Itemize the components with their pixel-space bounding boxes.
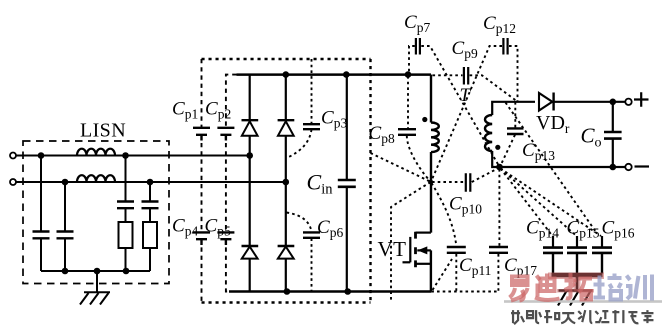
output ground slashes bbox=[558, 291, 591, 306]
label - bbox=[635, 165, 650, 167]
capacitor Cp3 dashed lead bbox=[287, 59, 312, 158]
capacitor Cp2/Cp5 parasitic line bbox=[226, 75, 237, 292]
wire VDr to output bbox=[552, 101, 626, 103]
dashed diag at source corner bbox=[433, 259, 453, 290]
svg-text:Cp4: Cp4 bbox=[172, 216, 198, 239]
chassis dotted box right edge bbox=[369, 59, 371, 303]
svg-text:T: T bbox=[460, 85, 472, 106]
ground bus bar bbox=[552, 273, 603, 278]
svg-text:Cp2: Cp2 bbox=[205, 99, 231, 122]
node drain convergence bbox=[428, 180, 433, 185]
capacitor Cin wire bbox=[346, 75, 348, 292]
capacitor Cp7 plates bbox=[416, 38, 420, 55]
node out+ bbox=[610, 99, 617, 106]
capacitor Cp1 plates bbox=[193, 128, 210, 141]
svg-text:Cp13: Cp13 bbox=[522, 140, 555, 163]
capacitor Cp13 leads bbox=[500, 102, 515, 166]
node toprail-Cp7/Cp8 bbox=[405, 71, 412, 78]
LISN cap branch A wire bbox=[40, 156, 42, 272]
bridge branch 2 wire bbox=[285, 75, 287, 292]
wire line2 bbox=[16, 181, 286, 183]
diode D4 bbox=[278, 245, 295, 247]
capacitor Cp9 leads bbox=[433, 75, 517, 100]
capacitor Cp13 plates bbox=[507, 128, 524, 134]
capacitor Cp4 plates bbox=[193, 232, 210, 245]
svg-text:Co: Co bbox=[581, 124, 602, 151]
capacitor B plates bbox=[57, 232, 74, 239]
chassis dotted box top edge bbox=[202, 58, 371, 60]
big char 2 (di) bbox=[535, 274, 560, 301]
node rail-B bbox=[62, 268, 69, 275]
svg-text:Cp9: Cp9 bbox=[452, 38, 478, 61]
bottom DC rail bbox=[229, 290, 431, 293]
svg-text:Cp1: Cp1 bbox=[172, 99, 198, 122]
svg-text:VDr: VDr bbox=[536, 112, 570, 136]
node branch1-wire1 bbox=[246, 152, 253, 159]
capacitor Cp16 bbox=[601, 236, 603, 247]
svg-text:VT: VT bbox=[378, 237, 407, 261]
capacitor Cp8 leads bbox=[407, 76, 430, 181]
node rail-gnd bbox=[94, 268, 101, 275]
svg-text:Cp11: Cp11 bbox=[459, 255, 491, 278]
node wire2-branchB bbox=[62, 179, 69, 186]
inductor L2 bbox=[77, 175, 115, 182]
red tint on ground bus bbox=[548, 273, 604, 280]
svg-text:Cp10: Cp10 bbox=[449, 194, 482, 217]
svg-text:Cp5: Cp5 bbox=[205, 216, 231, 239]
big char 4 (pei) bbox=[594, 274, 622, 300]
capacitor Cp10 plates bbox=[466, 173, 471, 191]
input terminal bottom bbox=[10, 179, 16, 185]
node wire2-branchD bbox=[147, 179, 154, 186]
resistor D bbox=[143, 222, 157, 248]
svg-text:Cin: Cin bbox=[307, 170, 334, 198]
capacitor Cp11 leads bbox=[432, 183, 457, 291]
resistor C bbox=[119, 222, 133, 248]
node out- bbox=[610, 164, 617, 171]
LISN RC branch C wire bbox=[125, 156, 127, 272]
svg-text:Cp15: Cp15 bbox=[567, 218, 600, 241]
wire secondary top bbox=[492, 102, 535, 115]
top DC rail bbox=[237, 73, 432, 76]
capacitor C plates bbox=[117, 202, 134, 209]
capacitor Cp11 plates bbox=[447, 247, 466, 253]
diode VDr bbox=[539, 93, 552, 111]
transistor VT bbox=[403, 232, 431, 292]
capacitor Cp7 leads bbox=[409, 46, 499, 167]
capacitor Co plates bbox=[604, 132, 622, 139]
diode D3 bbox=[242, 245, 259, 247]
wire out- stub bbox=[613, 166, 626, 168]
capacitor Cp14 bbox=[552, 236, 554, 247]
wire primary to VT drain bbox=[430, 152, 432, 233]
watermark bbox=[504, 273, 662, 325]
big char 5 (xun) bbox=[626, 275, 652, 301]
capacitor Cp12 plates bbox=[503, 38, 507, 55]
dashed: box edge to drain node bbox=[371, 153, 431, 182]
wire rail corner to primary bbox=[430, 75, 432, 123]
ground stem bbox=[576, 277, 579, 291]
terminal + bbox=[625, 99, 631, 105]
diode D1 bbox=[242, 119, 259, 121]
node secondary bottom bbox=[496, 164, 503, 171]
svg-text:LISN: LISN bbox=[80, 120, 126, 142]
terminal - bbox=[625, 164, 631, 170]
capacitor Cp12 leads bbox=[431, 46, 517, 181]
bridge branch 1 wire bbox=[249, 75, 251, 292]
capacitor Cp1/Cp4 parasitic line (box left edge) bbox=[201, 59, 203, 303]
capacitor Cp3 plates bbox=[303, 124, 320, 129]
node Cin-botrail bbox=[344, 288, 351, 295]
node branch2-botrail bbox=[284, 288, 291, 295]
svg-text:Cp7: Cp7 bbox=[404, 12, 430, 35]
underline bar bbox=[504, 300, 662, 303]
capacitor Cp6 dashed lead bbox=[287, 213, 312, 292]
capacitor Cp6 plates bbox=[303, 232, 320, 237]
wire line1 bbox=[16, 155, 250, 157]
transformer T primary winding bbox=[431, 123, 439, 153]
capacitor Cp17 leads bbox=[498, 169, 499, 292]
wire secondary bottom bbox=[492, 151, 613, 167]
capacitor Cp5 plates bbox=[217, 232, 234, 245]
dashed fan to ground caps bbox=[501, 169, 553, 237]
capacitor Cp8 plates bbox=[398, 129, 416, 135]
capacitor Cp10 leads bbox=[432, 168, 499, 182]
capacitor Cp9 plates bbox=[464, 67, 468, 85]
secondary polarity dot bbox=[495, 145, 500, 150]
node wire1-branchC bbox=[122, 152, 129, 159]
LISN RC branch D wire bbox=[149, 182, 151, 271]
capacitor Co wire bbox=[612, 102, 614, 167]
svg-text:Cp6: Cp6 bbox=[317, 217, 343, 240]
svg-text:Cp14: Cp14 bbox=[526, 218, 559, 241]
label + bbox=[634, 92, 649, 107]
chassis dotted box bottom edge bbox=[202, 301, 371, 303]
inductor L1 bbox=[77, 149, 115, 156]
node Cin-toprail bbox=[343, 71, 350, 78]
LISN bottom rail bbox=[41, 270, 150, 272]
svg-text:Cp12: Cp12 bbox=[483, 13, 516, 36]
transformer T secondary winding bbox=[485, 115, 492, 151]
capacitor Cp15 bbox=[576, 236, 578, 247]
big char 3 (tuo) bbox=[565, 273, 593, 300]
node branch2-wire2 bbox=[283, 179, 290, 186]
LISN cap branch B wire bbox=[64, 182, 66, 271]
capacitor Cin plates bbox=[338, 180, 356, 187]
slogan bbox=[511, 310, 653, 324]
node rail-C bbox=[123, 268, 130, 275]
capacitor A plates bbox=[33, 232, 50, 239]
capacitor D plates bbox=[142, 202, 159, 209]
svg-text:Cp16: Cp16 bbox=[602, 218, 635, 241]
output ground bar bbox=[559, 289, 593, 291]
capacitor Cp17 plates bbox=[489, 247, 508, 253]
LISN box bbox=[23, 141, 169, 284]
svg-text:Cp3: Cp3 bbox=[321, 108, 347, 131]
ground bbox=[80, 271, 110, 305]
dotted ground rail extension bbox=[431, 291, 498, 293]
capacitor Cp2 plates bbox=[217, 128, 234, 141]
node branch2-toprail bbox=[283, 71, 290, 78]
node wire1-branchA bbox=[38, 152, 45, 159]
primary polarity dot bbox=[422, 117, 427, 122]
svg-text:Cp8: Cp8 bbox=[369, 123, 395, 146]
big char 1 (yi) bbox=[510, 277, 528, 301]
VT arrow bbox=[418, 246, 428, 254]
dashed: drain node to box bottom bbox=[391, 182, 431, 302]
diode D2 bbox=[278, 119, 295, 121]
input terminal top bbox=[10, 153, 16, 159]
